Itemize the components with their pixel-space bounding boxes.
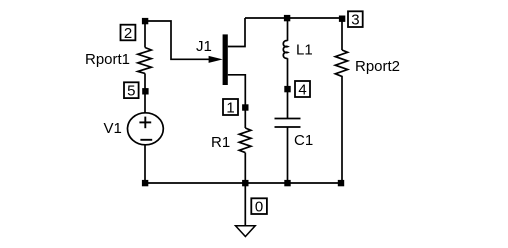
svg-text:3: 3	[351, 12, 359, 29]
svg-text:5: 5	[127, 83, 135, 100]
svg-text:J1: J1	[196, 38, 212, 55]
svg-text:R1: R1	[211, 134, 230, 151]
svg-text:Rport1: Rport1	[85, 51, 130, 68]
svg-text:4: 4	[298, 81, 306, 98]
svg-text:V1: V1	[104, 120, 122, 137]
svg-text:0: 0	[255, 199, 263, 216]
svg-text:L1: L1	[296, 42, 313, 59]
svg-text:Rport2: Rport2	[355, 58, 400, 75]
svg-text:1: 1	[226, 99, 234, 116]
svg-text:C1: C1	[294, 132, 313, 149]
svg-text:2: 2	[124, 25, 132, 42]
